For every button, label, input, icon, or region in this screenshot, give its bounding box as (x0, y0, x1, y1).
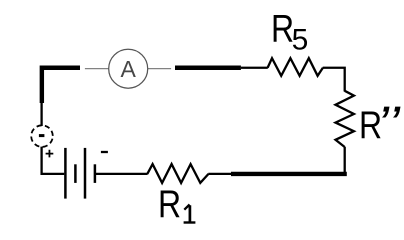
resistor R1 zigzag (147, 164, 208, 183)
svg-text:A: A (121, 56, 137, 82)
svg-text:’’: ’’ (379, 100, 403, 142)
wire left vertical thin into source (40, 102, 42, 127)
battery B1 plate short 1 (74, 164, 77, 183)
svg-text:5: 5 (292, 23, 309, 56)
resistor R5 zigzag (268, 58, 323, 76)
battery B1 plate short 2 (94, 164, 97, 183)
wire battery to R1 (95, 173, 148, 175)
wire top-left corner (thick) (42, 68, 80, 103)
source V1 dashed circle (29, 123, 55, 149)
label R1 subscript base (184, 221, 196, 223)
battery minus label (101, 151, 108, 153)
resistor R'' zigzag (336, 91, 354, 147)
wire top thick (175, 66, 241, 70)
source minus mark (39, 134, 45, 137)
wire lead to R5 (241, 67, 268, 69)
wire bottom thick (231, 172, 347, 176)
wire bottom-left corner (42, 147, 65, 174)
ammeter lead right (148, 68, 171, 70)
ammeter A1 circle (109, 49, 148, 88)
svg-text:R: R (158, 182, 181, 226)
source plus label (46, 150, 54, 158)
ammeter lead left (85, 68, 109, 70)
wire R1 to thick (208, 173, 232, 175)
battery B1 plate long 2 (84, 148, 87, 199)
label R1 subscript flag (184, 205, 189, 210)
battery B1 plate long 1 (64, 148, 67, 199)
wire top-right corner (323, 68, 345, 92)
label R1 subscript stem (189, 205, 192, 221)
wire right vertical lower (344, 147, 346, 174)
